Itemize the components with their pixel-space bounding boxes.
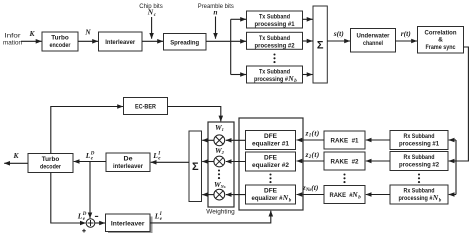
component: adder: [86, 219, 95, 228]
svg-text:mation: mation: [3, 40, 22, 47]
wire: DFE2 to multiplier2: [226, 161, 246, 163]
node: weighting dots: [218, 169, 220, 179]
svg-text:encoder: encoder: [50, 42, 71, 49]
block: Rx Subband processing #Nb: [390, 185, 448, 204]
svg-text:z2(t): z2(t): [305, 150, 320, 160]
node: LeI label (lower): [154, 211, 163, 222]
svg-text:D: D: [82, 212, 87, 217]
wire: bus to Rx subband Nb: [449, 194, 456, 196]
wire: turbo decoder down to adder: [51, 173, 86, 224]
svg-text:Rx Subband: Rx Subband: [404, 188, 435, 195]
block: Underwater channel: [351, 29, 396, 53]
wire: preamble bits arrow: [215, 17, 217, 39]
svg-text:Σ: Σ: [192, 161, 199, 173]
svg-text:interleaver: interleaver: [113, 163, 143, 170]
wire: RAKE1 to DFE1: [297, 139, 325, 141]
wire: multiplier3 to sum2: [202, 194, 214, 196]
svg-text:DFE: DFE: [264, 155, 278, 162]
block: EC-BER: [124, 98, 168, 115]
wire: spreading to Tx subband 2: [206, 40, 246, 42]
wire: bus to Rx subband 1: [449, 139, 456, 141]
wire: multiplier2 to sum2: [202, 161, 214, 163]
svg-text:N: N: [147, 8, 154, 17]
svg-text:processing #: processing #: [254, 76, 288, 83]
svg-text:De: De: [124, 156, 133, 163]
wire: sum to underwater channel: [327, 40, 350, 42]
wire: TxNb to sum: [303, 74, 313, 76]
wire: DFENb to multiplier3: [226, 194, 246, 196]
svg-text:Rx Subband: Rx Subband: [404, 154, 435, 161]
wire: de-interleaver to turbo decoder: [74, 161, 106, 163]
wire: bus to Rx subband 2: [449, 160, 456, 162]
node: Chip bits Nc label: [139, 3, 163, 18]
wire: turbo decoder up to EC-BER: [51, 107, 123, 154]
svg-text:EC-BER: EC-BER: [135, 104, 156, 111]
svg-text:K: K: [28, 29, 35, 38]
svg-text:N: N: [282, 193, 289, 202]
svg-text:Underwater: Underwater: [357, 33, 390, 40]
node: LeD label (upper): [85, 151, 95, 162]
svg-text:s(t): s(t): [333, 29, 345, 38]
block: summation (receive): [189, 131, 202, 202]
svg-text:Frame sync: Frame sync: [426, 44, 456, 51]
wire: multiplier1 to sum2: [202, 139, 214, 141]
wire: Rx bus vertical: [455, 140, 457, 195]
block: Tx Subband processing #Nb: [247, 66, 303, 84]
block: RAKE #2: [324, 152, 365, 170]
wire: Tx1 to sum: [303, 18, 313, 20]
block: summation (transmit): [313, 6, 327, 83]
svg-text:L: L: [152, 151, 158, 160]
svg-text:Tx Subband: Tx Subband: [259, 13, 290, 20]
wire: Rx2 to RAKE2: [366, 160, 390, 162]
wire: RAKENb to DFENb: [297, 194, 325, 196]
block: Correlation and Frame sync: [418, 27, 464, 54]
block: Turbo decoder: [28, 154, 73, 173]
svg-text:processing #1: processing #1: [399, 141, 439, 148]
svg-text:processing #1: processing #1: [255, 21, 295, 28]
node: LeI label (upper): [152, 151, 161, 162]
svg-text:z1(t): z1(t): [305, 129, 320, 139]
block: DFE equalizer #2: [246, 152, 296, 171]
block: Interleaver (feedback) with shadow: [106, 214, 153, 234]
svg-text:Spreading: Spreading: [170, 39, 199, 46]
block: RAKE #Nb: [324, 186, 365, 204]
svg-text:K: K: [12, 151, 19, 160]
wire: turbo decoder K output: [4, 162, 28, 164]
node: LeD label (lower): [77, 211, 87, 222]
node: RAKE dots: [343, 173, 345, 183]
svg-text:processing #2: processing #2: [255, 42, 295, 49]
svg-text:Turbo: Turbo: [42, 156, 60, 163]
wire: LeD junction down to adder: [89, 162, 91, 219]
wire: Rx1 to RAKE1: [366, 139, 390, 141]
svg-text:zNb(t): zNb(t): [302, 183, 319, 193]
svg-text:r(t): r(t): [401, 29, 412, 38]
svg-text:DFE: DFE: [264, 133, 278, 140]
svg-text:RAKE #2: RAKE #2: [331, 158, 359, 165]
svg-text:Correlation: Correlation: [425, 30, 457, 37]
svg-text:DFE: DFE: [264, 188, 278, 195]
svg-text:Infor: Infor: [5, 33, 22, 40]
component: multiplier 1: [214, 135, 225, 146]
svg-text:Interleaver: Interleaver: [111, 221, 145, 228]
node: plus sign at adder: [82, 229, 86, 233]
svg-text:L: L: [154, 211, 160, 220]
wire: RAKE2 to DFE2: [297, 160, 325, 162]
svg-text:decoder: decoder: [40, 164, 61, 171]
wire: RxNb to RAKENb: [366, 194, 390, 196]
svg-text:Interleaver: Interleaver: [105, 39, 135, 46]
block: Rx Subband processing #2: [390, 152, 448, 171]
svg-text:N: N: [287, 74, 294, 83]
svg-text:Weighting: Weighting: [206, 209, 235, 216]
wire: EC-BER to weighting box: [168, 107, 221, 122]
svg-text:N: N: [351, 190, 358, 199]
wire: correlation down to Rx bus: [456, 47, 468, 161]
wire: DFE1 to multiplier1: [226, 139, 246, 141]
node: minus sign at adder: [95, 215, 98, 217]
block: DFE equalizer #Nb: [246, 185, 296, 204]
svg-text:D: D: [90, 152, 95, 157]
svg-text:Tx Subband: Tx Subband: [259, 68, 290, 75]
node: information input label: [3, 33, 22, 47]
wire: turbo encoder to interleaver: [78, 40, 98, 42]
node: Tx dots: [273, 53, 275, 63]
block: DFE equalizer #1: [246, 131, 296, 150]
svg-text:N: N: [84, 28, 91, 37]
svg-text:L: L: [77, 211, 83, 220]
svg-text:Rx Subband: Rx Subband: [404, 133, 435, 140]
svg-text:RAKE #1: RAKE #1: [331, 137, 359, 144]
wire: branch to Tx subband Nb: [231, 74, 246, 76]
svg-text:N: N: [432, 193, 439, 202]
svg-text:equalizer #: equalizer #: [252, 195, 283, 202]
block: Interleaver (transmit): [99, 32, 143, 51]
block: Turbo encoder: [42, 32, 78, 51]
svg-text:&: &: [438, 37, 443, 44]
svg-text:processing #2: processing #2: [399, 162, 439, 169]
component: multiplier 3: [214, 189, 225, 200]
block: Weighting group box: [208, 122, 234, 207]
node: Rx dots: [418, 173, 420, 183]
node: Preamble bits n label: [198, 3, 235, 16]
wire: Tx2 to sum: [303, 40, 313, 42]
svg-text:n: n: [213, 8, 217, 17]
block: De interleaver: [106, 153, 150, 172]
svg-text:equalizer #1: equalizer #1: [252, 141, 289, 148]
svg-text:RAKE #: RAKE #: [330, 192, 353, 199]
wire: sum2 to de-interleaver: [151, 161, 189, 163]
wire: branch to Tx subband 1: [231, 18, 246, 20]
block: RAKE #1: [324, 131, 365, 149]
block: DFE group box: [239, 118, 303, 210]
block: Tx Subband processing #2: [247, 32, 303, 49]
wire: interleaver feedback to DFE group: [150, 211, 271, 223]
block: Spreading: [164, 34, 207, 51]
wire: chip bits arrow: [151, 17, 153, 39]
block: Tx Subband processing #1: [247, 11, 303, 28]
svg-text:Turbo: Turbo: [51, 34, 69, 41]
wire: channel to correlation: [396, 40, 418, 42]
node: DFE dots: [269, 173, 271, 183]
svg-text:Tx Subband: Tx Subband: [259, 35, 290, 42]
svg-text:Σ: Σ: [317, 39, 324, 51]
svg-text:processing #: processing #: [399, 195, 433, 202]
component: multiplier 2: [214, 156, 225, 167]
svg-text:channel: channel: [363, 40, 383, 47]
block: Rx Subband processing #1: [390, 131, 448, 150]
wire: branch vertical for Tx subbands: [230, 19, 232, 74]
wire: information to turbo encoder: [21, 40, 42, 42]
wire: adder to interleaver: [95, 222, 105, 224]
wire: interleaver to spreading: [142, 40, 163, 42]
svg-text:L: L: [85, 151, 91, 160]
svg-text:equalizer #2: equalizer #2: [252, 162, 289, 169]
